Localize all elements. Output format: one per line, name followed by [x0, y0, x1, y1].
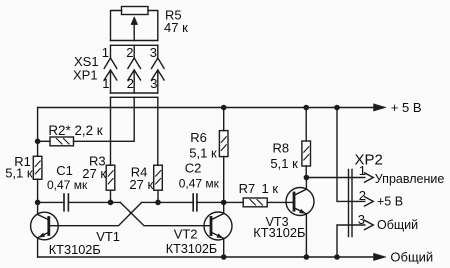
resistor R7: [243, 198, 267, 207]
svg-text:+5 В: +5 В: [377, 195, 403, 209]
wire VT2 collector node to R7: [224, 201, 244, 203]
node XP2 pin2 rail tap: [334, 105, 340, 111]
wire C2 to VT2 collector node: [197, 201, 224, 203]
wire R8 branch from rail: [305, 108, 307, 142]
node VT3 emitter rail: [304, 254, 310, 260]
wire common rail bottom: [38, 256, 374, 258]
XS1 pin 2 socket: [128, 45, 141, 68]
wire C1 to cross bend: [68, 201, 120, 203]
wire R7 to VT3 base: [267, 201, 294, 203]
resistor R8: [302, 141, 311, 166]
svg-text:5,1 к: 5,1 к: [5, 166, 33, 181]
wire R3 bottom: [110, 190, 112, 202]
wire cross-couple B to VT1 base: [49, 202, 142, 225]
resistor R2: [50, 137, 74, 146]
svg-text:1: 1: [102, 76, 109, 91]
node VT2 collector: [221, 200, 227, 206]
resistor R4: [154, 165, 163, 190]
svg-text:2: 2: [126, 45, 133, 60]
svg-text:Общий: Общий: [377, 218, 418, 232]
svg-text:R8: R8: [273, 141, 290, 156]
wire R4 node to C2: [142, 201, 194, 203]
node R3 bottom: [108, 200, 114, 206]
svg-text:+ 5 В: + 5 В: [391, 100, 422, 115]
svg-text:0,47 мк: 0,47 мк: [47, 178, 88, 192]
+5V rail arrow: [374, 104, 386, 111]
svg-text:2: 2: [359, 188, 366, 203]
node R8 top: [303, 105, 309, 111]
svg-text:C1: C1: [56, 163, 73, 178]
wire R5 left lead: [111, 11, 122, 41]
svg-text:3: 3: [150, 45, 157, 60]
svg-text:Общий: Общий: [390, 250, 433, 265]
resistor R1: [33, 156, 42, 179]
XP1 pin 1 plug arrow: [104, 70, 117, 93]
svg-text:2: 2: [127, 76, 134, 91]
svg-text:27 к: 27 к: [129, 177, 153, 192]
wire R1 bottom to collector node: [37, 179, 39, 202]
svg-text:1: 1: [359, 163, 366, 178]
wire +5V rail top: [38, 107, 374, 109]
wire R4 bottom: [157, 190, 159, 202]
wire rail to XP2 pin 2: [337, 108, 365, 202]
wire R5 right lead: [148, 11, 158, 41]
wire R2 left lead: [38, 140, 50, 142]
XP2 pin 2 plug: [365, 197, 374, 206]
transistor VT2: [204, 202, 232, 257]
svg-text:XP1: XP1: [73, 67, 98, 82]
svg-text:5,1 к: 5,1 к: [189, 146, 217, 161]
common rail arrow: [374, 253, 386, 260]
wire VT3 collector node to XP2 pin 1: [306, 177, 364, 179]
svg-text:1: 1: [102, 45, 109, 60]
svg-text:R6: R6: [190, 130, 207, 145]
svg-text:47 к: 47 к: [164, 20, 188, 35]
node R4 bottom: [155, 200, 161, 206]
svg-text:КТ3102Б: КТ3102Б: [253, 225, 305, 240]
wire R2 right lead to XP1 pin 2: [74, 97, 135, 141]
XS1 pin 3 socket: [152, 45, 165, 68]
node VT3 collector: [304, 175, 310, 181]
transistor VT1: [31, 202, 59, 257]
svg-text:VT2: VT2: [174, 227, 198, 242]
node VT2 emitter rail: [221, 254, 227, 260]
node VT1 collector: [35, 200, 41, 206]
R5 wiper arrow: [133, 24, 135, 41]
svg-text:C2: C2: [185, 161, 202, 176]
wire R6 bottom to collector node: [223, 157, 225, 203]
node XP2 pin3 rail tap: [334, 254, 340, 260]
wire R8 bottom to VT3 collector node: [305, 166, 307, 178]
wire XP1 pin 3 down to R4: [157, 97, 159, 165]
connector XS1 body bars: [111, 41, 158, 46]
node R2 tap: [35, 139, 41, 145]
wire XP2 pin 3 to bottom rail: [337, 225, 365, 257]
XP2 pin 3 plug: [365, 220, 374, 229]
XP1 pin 2 plug arrow: [128, 70, 141, 93]
XP1 pin 3 plug arrow: [152, 70, 165, 93]
svg-text:КТ3102Б: КТ3102Б: [166, 242, 217, 256]
wire cross-couple A to VT2 base: [120, 202, 211, 225]
wire R6 branch from rail: [223, 108, 225, 131]
svg-text:R7: R7: [239, 181, 256, 196]
resistor R6: [219, 131, 228, 157]
wire XP1 pin 1 down to R3: [110, 97, 112, 165]
wire collector VT1 node to C1: [38, 201, 64, 203]
svg-text:R2* 2,2 к: R2* 2,2 к: [48, 123, 102, 138]
svg-text:5,1 к: 5,1 к: [270, 156, 298, 171]
transistor VT3: [286, 178, 314, 258]
wire R1 branch from rail: [37, 108, 39, 157]
node R6 top: [221, 105, 227, 111]
svg-text:0,47 мк: 0,47 мк: [179, 176, 220, 190]
XS1 pin 1 socket: [104, 45, 117, 68]
svg-text:3: 3: [358, 212, 365, 227]
svg-text:1 к: 1 к: [262, 181, 279, 196]
svg-text:3: 3: [150, 76, 157, 91]
XP2 pin 1 plug: [365, 173, 374, 182]
potentiometer R5 body: [122, 7, 149, 15]
capacitor C2: [193, 194, 197, 211]
svg-text:КТ3102Б: КТ3102Б: [49, 242, 101, 257]
connector XP2 body double line: [349, 170, 353, 237]
capacitor C1: [64, 194, 68, 211]
resistor R3: [106, 165, 115, 190]
svg-text:Управление: Управление: [375, 172, 445, 186]
connector XP1 body bars: [111, 93, 158, 97]
